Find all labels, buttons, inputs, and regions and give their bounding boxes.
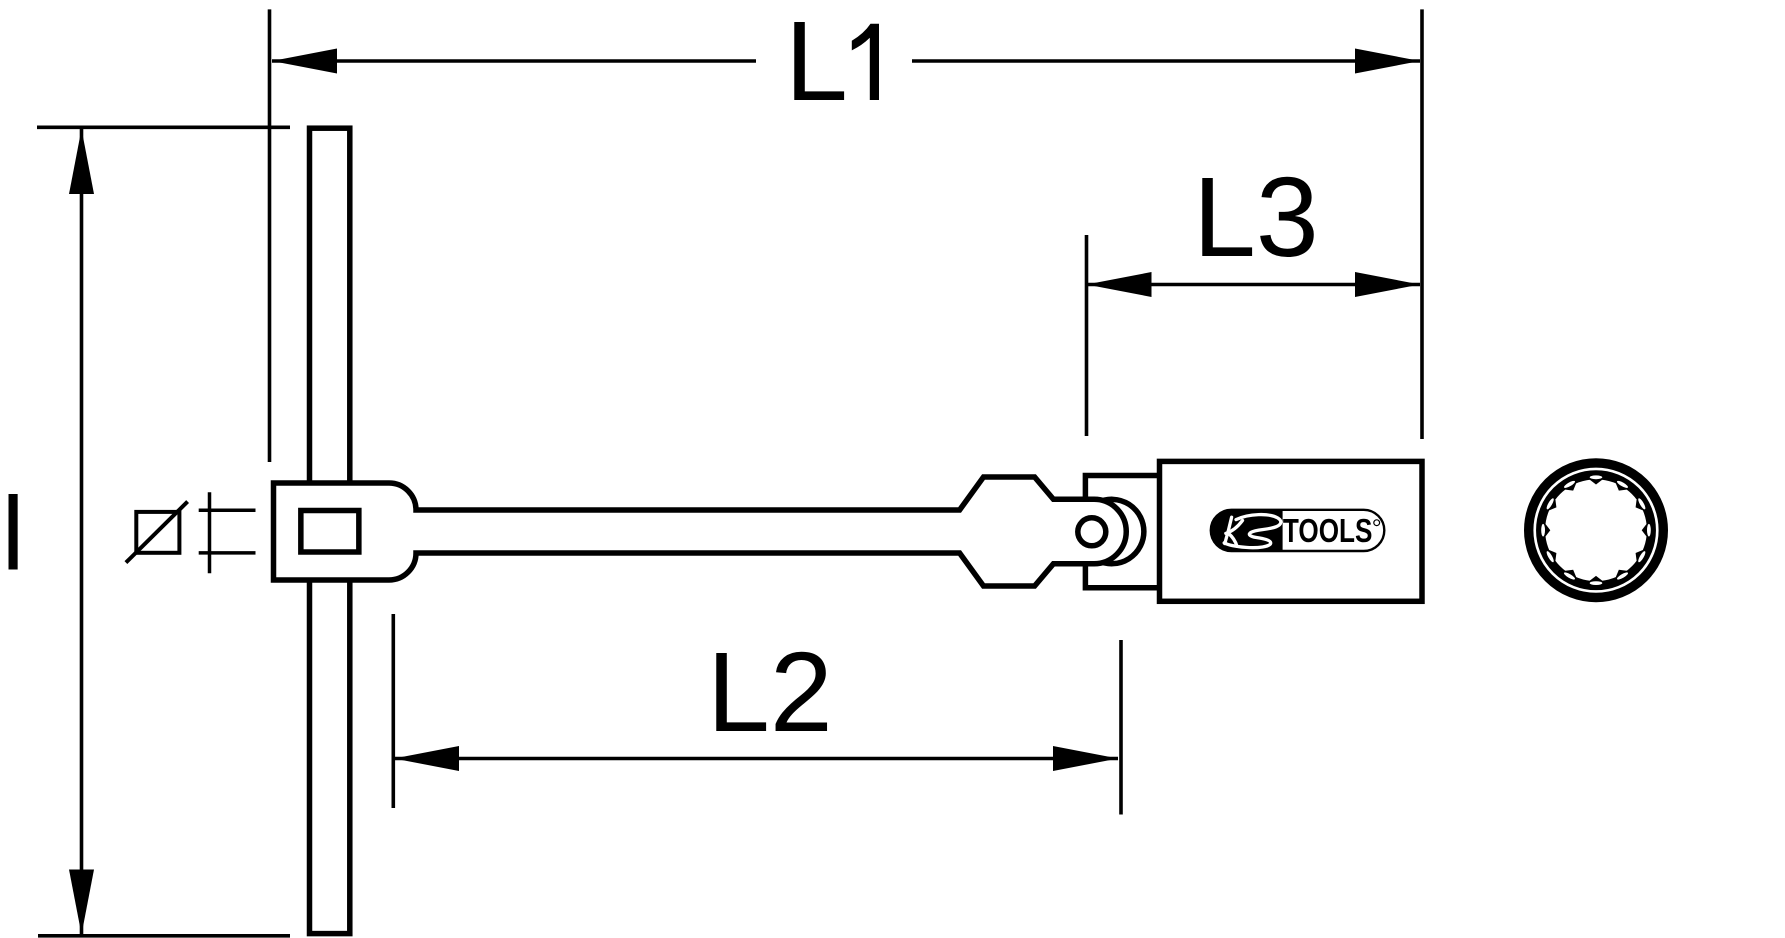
socket yoke fork xyxy=(1085,476,1168,588)
svg-text:l: l xyxy=(2,477,25,593)
wrench body: handle block, shaft, hex collar, joint yoke xyxy=(274,477,1127,586)
dimension L1/L3 extension line right xyxy=(1420,9,1424,439)
dimension L1 arrow left xyxy=(272,49,337,74)
svg-text:L3: L3 xyxy=(1193,154,1319,280)
socket 12pt profile lens highlights xyxy=(1647,524,1651,537)
dimension L2 extension line left xyxy=(391,614,395,808)
T-handle cross bar xyxy=(310,128,350,933)
dimension L3 arrow left xyxy=(1087,272,1152,297)
dimension L1 line xyxy=(272,59,1420,63)
dimension l extension line top xyxy=(37,126,290,130)
bar diameter tick vertical xyxy=(208,492,212,573)
registered mark xyxy=(1374,520,1380,526)
dimension L2 arrow left xyxy=(394,746,459,771)
dimension L2 extension line right xyxy=(1119,640,1123,815)
bar diameter tick top xyxy=(199,508,256,512)
joint pin xyxy=(1078,518,1106,546)
socket body xyxy=(1160,461,1423,601)
square-drive symbol diagonal xyxy=(126,502,188,563)
socket yoke fork arc xyxy=(1098,499,1144,563)
dimension L1 extension line left xyxy=(268,9,272,462)
svg-text:L: L xyxy=(785,0,848,124)
dimension L3 extension line left xyxy=(1085,235,1089,436)
dimension L2 arrow right xyxy=(1053,746,1118,771)
KS script K arm xyxy=(1226,521,1243,534)
dimension L2 line xyxy=(394,757,1118,761)
KS script S xyxy=(1224,515,1281,548)
bar diameter tick bottom xyxy=(199,551,256,555)
dimension L1 arrow right xyxy=(1355,49,1420,74)
socket end view inner circle xyxy=(1539,473,1653,587)
dimension L3 line xyxy=(1087,283,1421,287)
socket 12pt profile star xyxy=(1543,477,1649,583)
dimension l extension line bottom xyxy=(38,934,290,938)
KS script K stem xyxy=(1225,517,1232,543)
square-drive symbol box xyxy=(136,512,179,553)
KS TOOLS logo black half xyxy=(1210,509,1283,551)
dimension l arrow top xyxy=(69,129,94,194)
socket end view outer circle xyxy=(1529,463,1664,598)
square drive hole xyxy=(301,511,359,553)
dimension l arrow bottom xyxy=(69,870,94,935)
TOOLS text xyxy=(1283,513,1373,550)
dimension L3 arrow right xyxy=(1355,272,1420,297)
svg-text:TOOLS: TOOLS xyxy=(1283,513,1373,550)
KS script K leg xyxy=(1228,533,1237,546)
KS TOOLS logo capsule xyxy=(1211,510,1385,551)
svg-text:L2: L2 xyxy=(707,629,833,755)
dimension l line xyxy=(80,129,84,935)
